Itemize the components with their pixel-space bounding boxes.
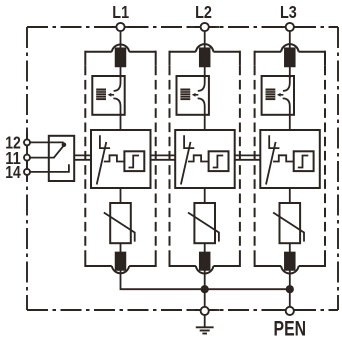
impulse waveform module 1 <box>104 155 125 161</box>
varistor diagonal module 1 <box>104 213 135 242</box>
border dash stubs at terminals <box>27 27 305 310</box>
junction node module3/bus <box>286 285 294 293</box>
wire spark gap to varistor module 1 <box>120 188 122 203</box>
ground symbol <box>196 315 214 333</box>
impulse waveform module 2 <box>188 155 209 161</box>
wire terminal 11 <box>30 157 54 159</box>
wire spark gap to varistor module 3 <box>289 188 291 203</box>
svg-text:PEN: PEN <box>274 317 307 340</box>
varistor module 3 <box>280 203 301 243</box>
spark gap electrode wire (hooked) module 2 <box>198 76 205 91</box>
thermal disconnector (bottom) module 2 <box>200 252 210 270</box>
blade diagonal module 1 <box>97 142 107 185</box>
module box phase 1 (dashed enclosure) <box>85 44 155 273</box>
spark gap electrode wire (hooked) module 3 <box>283 76 290 91</box>
wire bus to PEN terminal <box>289 289 291 310</box>
varistor module 2 <box>194 203 215 243</box>
changeover blade <box>53 146 63 158</box>
disconnect blade symbol module 3 <box>269 135 279 148</box>
wire terminal 14 with open contact <box>30 164 69 172</box>
remote signalling contact box <box>49 136 74 181</box>
electrode block (hatched) module 2 <box>180 89 190 101</box>
step function module 3 <box>298 156 309 168</box>
arrow into electrode module 2 <box>192 93 199 97</box>
terminal 14 <box>24 169 30 175</box>
thermal disconnector (bottom) module 1 <box>116 252 126 270</box>
earth-side bus wire <box>121 270 290 289</box>
terminal L2 <box>201 23 209 31</box>
wire spark gap to varistor module 2 <box>204 188 206 203</box>
varistor module 1 <box>110 203 131 243</box>
wire module2 to bus <box>204 270 206 289</box>
enclosure border left <box>26 27 28 310</box>
spark gap electrode wire (hooked) module 1 <box>114 76 121 91</box>
terminal L3 <box>286 23 294 31</box>
thermal disconnector (top) module 2 <box>200 48 210 66</box>
module box phase 3 (dashed enclosure) <box>255 44 325 273</box>
trigger unit box module 2 <box>209 151 229 171</box>
trigger interconnect wires <box>235 154 261 156</box>
wire bus to earth terminal <box>204 289 206 310</box>
svg-text:14: 14 <box>5 162 21 182</box>
DC switching device box module 2 <box>177 76 209 115</box>
thermal disconnector (bottom) module 3 <box>285 252 295 270</box>
wire terminal L3 to disconnector <box>289 27 291 50</box>
blade diagonal module 2 <box>181 142 191 185</box>
terminal 11 <box>24 155 30 161</box>
triggered spark gap box module 1 <box>91 130 151 188</box>
varistor diagonal module 3 <box>273 213 304 242</box>
step function module 2 <box>213 156 224 168</box>
trigger interconnect wires <box>151 154 176 156</box>
wire terminal 12 <box>30 141 64 143</box>
triggered spark gap box module 3 <box>260 130 320 188</box>
step function module 1 <box>129 156 140 168</box>
disconnect blade symbol module 1 <box>100 135 110 148</box>
trigger interconnect wires <box>74 154 91 156</box>
wire terminal L1 to disconnector <box>120 27 122 50</box>
blade diagonal module 3 <box>266 142 276 185</box>
PEN terminal circle <box>286 307 294 315</box>
trigger unit box module 1 <box>124 151 144 171</box>
wire module3 to bus <box>289 270 291 289</box>
thermal disconnector (top) module 3 <box>285 48 295 66</box>
enclosure border right <box>337 27 339 310</box>
wire varistor to bottom disconnector module 3 <box>289 243 291 254</box>
wire disconnector to switch box module 1 <box>120 67 122 79</box>
wire varistor to bottom disconnector module 1 <box>120 243 122 254</box>
disconnect blade symbol module 2 <box>184 135 194 148</box>
wire varistor to bottom disconnector module 2 <box>204 243 206 254</box>
thermal disconnector (top) module 1 <box>116 48 126 66</box>
wire disconnector to switch box module 3 <box>289 67 291 79</box>
wire terminal L2 to disconnector <box>204 27 206 50</box>
trigger unit box module 3 <box>294 151 314 171</box>
terminal 12 <box>24 139 30 145</box>
electrode block (hatched) module 1 <box>96 89 106 101</box>
contact node dot <box>62 142 67 147</box>
earth terminal circle <box>201 307 209 315</box>
electrode block (hatched) module 3 <box>266 89 276 101</box>
DC switching device box module 3 <box>262 76 294 115</box>
wire disconnector to switch box module 2 <box>204 67 206 79</box>
enclosure border top <box>27 26 338 28</box>
DC switching device box module 1 <box>92 76 124 115</box>
impulse waveform module 3 <box>273 155 294 161</box>
svg-text:L2: L2 <box>195 2 212 22</box>
module box phase 2 (dashed enclosure) <box>170 44 240 273</box>
svg-text:L3: L3 <box>280 2 297 22</box>
junction node module2/bus <box>201 285 209 293</box>
arrow into electrode module 3 <box>277 93 284 97</box>
arrow into electrode module 1 <box>108 93 115 97</box>
varistor diagonal module 2 <box>188 213 219 242</box>
terminal L1 <box>116 23 124 31</box>
svg-text:L1: L1 <box>112 2 129 22</box>
triggered spark gap box module 2 <box>175 130 235 188</box>
enclosure border bottom <box>27 309 338 311</box>
